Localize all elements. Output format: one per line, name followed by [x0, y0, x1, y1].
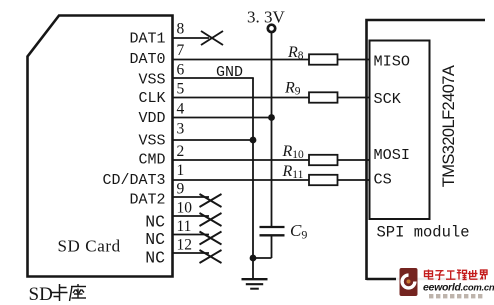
- svg-text:3. 3V: 3. 3V: [247, 8, 286, 27]
- svg-text:9: 9: [177, 181, 185, 198]
- svg-text:TMS320LF2407A: TMS320LF2407A: [440, 65, 458, 187]
- svg-text:R10: R10: [282, 143, 305, 161]
- svg-text:eeworld.com.cn: eeworld.com.cn: [423, 282, 494, 294]
- svg-text:4: 4: [177, 100, 185, 117]
- svg-text:1: 1: [177, 162, 185, 179]
- svg-text:VDD: VDD: [138, 110, 165, 127]
- svg-text:DAT1: DAT1: [129, 31, 165, 48]
- svg-text:GND: GND: [216, 64, 243, 81]
- svg-text:MISO: MISO: [374, 52, 410, 70]
- svg-text:5: 5: [177, 81, 185, 98]
- svg-text:DAT0: DAT0: [129, 51, 165, 68]
- svg-text:10: 10: [177, 200, 193, 217]
- svg-text:CLK: CLK: [138, 90, 165, 107]
- svg-text:R11: R11: [282, 163, 304, 181]
- svg-text:SPI module: SPI module: [377, 224, 470, 242]
- svg-text:NC: NC: [145, 230, 165, 249]
- svg-text:R9: R9: [284, 80, 301, 98]
- svg-text:NC: NC: [145, 248, 165, 267]
- svg-text:SCK: SCK: [374, 90, 402, 108]
- svg-text:CS: CS: [374, 171, 392, 189]
- svg-text:VSS: VSS: [138, 133, 165, 150]
- svg-text:11: 11: [177, 218, 192, 235]
- svg-text:C9: C9: [290, 221, 307, 242]
- svg-text:SD: SD: [29, 284, 53, 305]
- svg-text:6: 6: [177, 62, 185, 79]
- svg-text:R8: R8: [287, 44, 304, 62]
- svg-text:VSS: VSS: [138, 71, 165, 88]
- svg-text:CD/DAT3: CD/DAT3: [102, 172, 165, 189]
- svg-text:8: 8: [177, 21, 185, 38]
- svg-text:NC: NC: [145, 212, 165, 231]
- svg-text:2: 2: [177, 143, 185, 160]
- svg-text:DAT2: DAT2: [129, 192, 165, 209]
- svg-text:3: 3: [177, 121, 185, 138]
- svg-text:MOSI: MOSI: [374, 146, 410, 164]
- svg-text:7: 7: [177, 42, 185, 59]
- svg-text:SD Card: SD Card: [58, 236, 121, 255]
- svg-text:12: 12: [177, 237, 193, 254]
- svg-text:CMD: CMD: [138, 151, 165, 168]
